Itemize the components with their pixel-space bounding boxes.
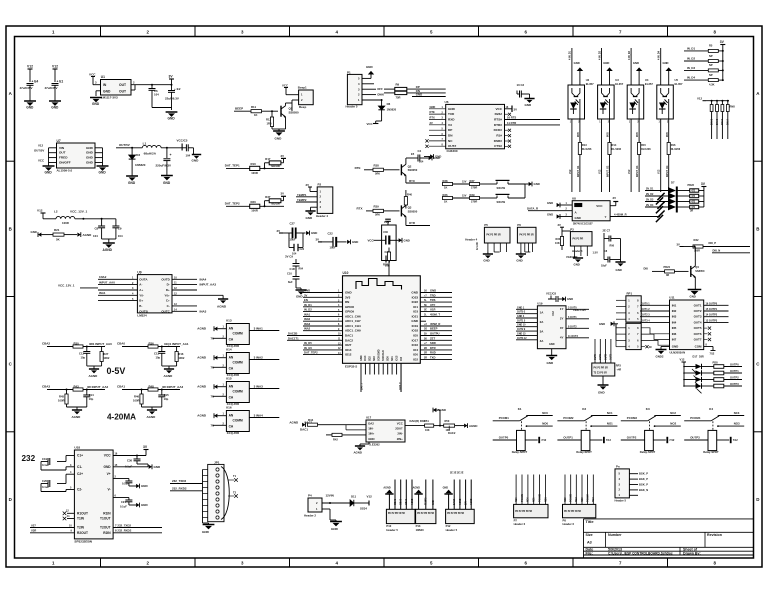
wire <box>418 494 420 509</box>
svg-text:PK P2 PR 5R 5R: PK P2 PR 5R 5R <box>515 511 532 513</box>
svg-text:R232: R232 <box>495 112 503 116</box>
header P8 <box>563 504 596 517</box>
wire <box>516 313 537 315</box>
wire <box>172 294 223 296</box>
svg-text:GND: GND <box>304 289 310 293</box>
svg-text:6 OUT1: 6 OUT1 <box>568 316 577 319</box>
svg-text:ADC1_CH6: ADC1_CH6 <box>345 314 361 318</box>
svg-text:DAC(R) R49: DAC(R) R49 <box>410 419 426 423</box>
svg-text:2N_D3: 2N_D3 <box>646 199 654 201</box>
svg-text:IO15: IO15 <box>395 355 398 361</box>
svg-text:VCC/C5: VCC/C5 <box>177 139 188 143</box>
svg-text:GND: GND <box>45 171 53 175</box>
svg-text:GND: GND <box>306 216 313 220</box>
svg-text:31Q1 INPUT_AA1: 31Q1 INPUT_AA1 <box>164 342 189 346</box>
svg-text:FRED: FRED <box>59 156 68 160</box>
svg-text:8 232_RXD2: 8 232_RXD2 <box>115 529 132 533</box>
power GND <box>668 71 670 85</box>
power 3V <box>283 158 285 162</box>
ground AGND <box>147 409 157 411</box>
svg-text:Number: Number <box>608 533 622 537</box>
svg-text:BEEP: BEEP <box>430 327 438 331</box>
svg-text:5R6: 5R6 <box>375 171 380 175</box>
svg-text:CBA3: CBA3 <box>405 498 408 505</box>
svg-text:TBD10K: TBD10K <box>271 165 281 168</box>
svg-text:3R: 3R <box>666 274 669 277</box>
svg-text:GND 10: GND 10 <box>517 325 526 327</box>
svg-text:R2OUT: R2OUT <box>77 531 88 535</box>
net 455M_R <box>610 216 660 218</box>
svg-text:VCC_12V_1: VCC_12V_1 <box>58 283 75 287</box>
wire <box>610 339 612 363</box>
svg-text:GND: GND <box>141 503 148 507</box>
svg-text:SCK/CLK: SCK/CLK <box>382 350 385 361</box>
svg-text:COMM: COMM <box>233 390 244 394</box>
svg-text:3V: 3V <box>514 107 518 111</box>
svg-text:AN: AN <box>229 414 234 418</box>
svg-text:DA2: DA2 <box>368 421 374 425</box>
svg-text:OUT#: OUT# <box>448 144 457 148</box>
wire <box>566 308 589 310</box>
svg-text:100R: 100R <box>58 399 65 403</box>
svg-text:NO0: NO0 <box>528 497 530 502</box>
wire <box>533 475 535 505</box>
svg-text:3V C9: 3V C9 <box>285 255 293 259</box>
svg-text:IO23: IO23 <box>412 295 419 299</box>
svg-text:C15: C15 <box>164 393 169 397</box>
svg-text:DL/1206: DL/1206 <box>582 148 592 151</box>
capacitor E1 <box>53 68 58 70</box>
wire <box>601 48 603 85</box>
power AGND <box>464 424 467 428</box>
svg-text:3 INA2: 3 INA2 <box>254 356 264 360</box>
svg-text:GND: GND <box>99 171 107 175</box>
svg-text:C2+: C2+ <box>77 472 83 476</box>
svg-text:C23: C23 <box>300 248 305 251</box>
svg-text:IN_D1: IN_D1 <box>687 46 695 50</box>
svg-text:IN: IN <box>103 83 107 87</box>
svg-text:INPUT_D1: INPUT_D1 <box>578 165 580 177</box>
svg-text:2N_D4: 2N_D4 <box>646 204 654 207</box>
svg-text:OUTP0: OUTP0 <box>730 362 739 366</box>
svg-text:GND: GND <box>599 322 605 326</box>
wire <box>599 339 601 363</box>
svg-text:DAT_TEP1: DAT_TEP1 <box>225 163 240 167</box>
svg-text:PK P2 PR 5R 5R: PK P2 PR 5R 5R <box>388 513 405 515</box>
svg-text:CBA1: CBA1 <box>117 384 125 388</box>
svg-text:AGND: AGND <box>197 327 207 331</box>
svg-text:PD8: PD8 <box>713 361 719 365</box>
svg-text:R16: R16 <box>671 143 676 147</box>
svg-text:GND: GND <box>416 93 422 97</box>
resistor pack RP3 <box>592 363 615 376</box>
svg-text:3R: 3R <box>690 210 693 213</box>
wire <box>459 480 461 510</box>
svg-text:DTR#: DTR# <box>494 123 502 127</box>
svg-text:AGND: AGND <box>289 421 299 425</box>
ground <box>273 130 285 132</box>
wire <box>616 299 626 301</box>
wire <box>429 108 446 110</box>
power GND <box>638 71 640 85</box>
wire <box>420 315 452 317</box>
svg-text:INPUT_AA3: INPUT_AA3 <box>200 283 217 287</box>
wire <box>616 306 626 308</box>
power GND <box>529 182 532 186</box>
svg-text:VCC: VCC <box>596 204 603 208</box>
svg-text:U10: U10 <box>343 271 349 275</box>
svg-text:OUTPU: OUTPU <box>430 332 440 336</box>
svg-text:IO22: IO22 <box>412 300 419 304</box>
resistor R12 <box>271 111 273 117</box>
svg-text:1IN-: 1IN- <box>368 427 373 431</box>
wire <box>98 300 137 302</box>
svg-text:U6: U6 <box>445 100 449 104</box>
svg-text:VCC: VCC <box>397 421 403 425</box>
svg-text:2E C7: 2E C7 <box>603 228 611 232</box>
svg-text:R12: R12 <box>266 118 271 122</box>
wire <box>102 238 116 240</box>
svg-text:R32: R32 <box>694 238 699 242</box>
wire <box>303 354 343 356</box>
svg-text:11 OUT3: 11 OUT3 <box>568 335 579 338</box>
svg-text:C1+: C1+ <box>77 454 83 458</box>
svg-text:R5: R5 <box>709 44 713 48</box>
svg-text:AGND: AGND <box>147 415 157 419</box>
svg-text:Beep: Beep <box>299 105 306 109</box>
svg-text:BEEP: BEEP <box>235 107 243 111</box>
power 3V <box>169 78 174 80</box>
svg-text:IN05: IN05 <box>637 132 639 137</box>
svg-text:Relay-SPDT: Relay-SPDT <box>640 450 656 454</box>
svg-text:R46: R46 <box>134 395 139 399</box>
wire <box>420 292 452 294</box>
svg-text:IO2: IO2 <box>413 357 418 361</box>
svg-text:104: 104 <box>186 154 191 158</box>
svg-text:IN_D2: IN_D2 <box>687 56 695 60</box>
resistor network RN8 <box>711 100 713 102</box>
svg-text:AGND: AGND <box>217 305 227 309</box>
resistor R21 <box>38 233 41 237</box>
net INA2 <box>249 359 279 361</box>
svg-text:SW-PB: SW-PB <box>497 186 506 190</box>
wire <box>394 480 396 510</box>
wire <box>287 339 343 341</box>
svg-text:CA: CA <box>229 396 234 400</box>
power 3V <box>283 196 285 200</box>
capacitor E2 <box>168 90 175 92</box>
wire <box>539 475 541 505</box>
svg-text:Relay-SPDT: Relay-SPDT <box>512 450 528 454</box>
svg-text:Size: Size <box>586 533 593 537</box>
svg-text:+: + <box>170 153 172 157</box>
wire <box>566 337 589 339</box>
svg-text:15 OUTP1: 15 OUTP1 <box>706 308 718 311</box>
svg-text:EL357: EL357 <box>675 82 683 86</box>
wire <box>575 475 577 505</box>
svg-text:GND: GND <box>352 240 358 244</box>
svg-text:C21: C21 <box>121 500 126 504</box>
svg-text:GND: GND <box>103 465 111 469</box>
svg-text:R45: R45 <box>59 395 64 399</box>
svg-text:GND: GND <box>662 61 668 65</box>
svg-text:VCC: VCC <box>282 84 288 88</box>
svg-text:U16: U16 <box>226 406 232 410</box>
svg-text:PCOM4: PCOM4 <box>586 493 589 502</box>
svg-text:V12: V12 <box>37 209 43 213</box>
svg-text:R15: R15 <box>641 143 646 147</box>
svg-text:CBA3: CBA3 <box>42 384 50 388</box>
svg-text:104: 104 <box>419 160 424 164</box>
svg-text:V12: V12 <box>52 65 58 69</box>
svg-text:IO16: IO16 <box>412 343 419 347</box>
svg-text:1K: 1K <box>444 200 447 204</box>
svg-text:GND: GND <box>433 500 435 505</box>
svg-text:SS8050: SS8050 <box>695 269 705 273</box>
wire <box>420 339 452 341</box>
wire <box>630 119 632 192</box>
svg-text:A-: A- <box>139 283 142 287</box>
svg-text:IN3: IN3 <box>672 315 677 319</box>
wire <box>303 292 343 294</box>
svg-text:OUT2 3: OUT2 3 <box>641 314 650 317</box>
svg-text:DL/1206: DL/1206 <box>641 148 651 151</box>
svg-text:DNA1: DNA1 <box>710 118 713 125</box>
svg-text:RXD: RXD <box>448 118 455 122</box>
wire <box>494 251 500 253</box>
svg-text:R50: R50 <box>445 419 450 423</box>
svg-text:7/12: 7/12 <box>733 438 739 442</box>
svg-text:P5: P5 <box>484 223 488 227</box>
wire <box>629 484 638 486</box>
svg-text:IO21: IO21 <box>412 314 419 318</box>
wire <box>570 475 572 505</box>
svg-text:NO0: NO0 <box>542 422 548 426</box>
svg-text:104: 104 <box>154 93 159 97</box>
svg-text:232_TXD2: 232_TXD2 <box>172 479 187 483</box>
svg-text:SD1: SD1 <box>391 356 394 361</box>
wire <box>566 327 589 329</box>
svg-text:A3: A3 <box>587 541 592 545</box>
svg-text:104: 104 <box>118 234 123 238</box>
wire <box>303 344 343 346</box>
no-connect <box>704 339 708 341</box>
svg-text:Header 5: Header 5 <box>346 105 358 109</box>
ground AGND <box>89 368 99 370</box>
wire <box>629 478 638 480</box>
svg-text:Pn: Pn <box>616 465 620 469</box>
svg-text:R40: R40 <box>407 192 412 196</box>
svg-text:3R1 INPUT_AA0: 3R1 INPUT_AA0 <box>89 342 112 346</box>
svg-text:C+: C+ <box>166 299 170 303</box>
svg-text:SD0: SD0 <box>387 356 390 361</box>
svg-text:NC1: NC1 <box>607 411 613 415</box>
ground AGND <box>72 409 82 411</box>
svg-text:7/12: 7/12 <box>541 438 547 442</box>
svg-text:GND: GND <box>31 230 37 234</box>
svg-text:EL357: EL357 <box>645 82 653 86</box>
svg-text:GND: GND <box>92 102 100 106</box>
svg-text:TBD10K: TBD10K <box>271 203 281 206</box>
svg-text:PK P2 PR 5R: PK P2 PR 5R <box>519 235 534 237</box>
ground <box>574 256 576 258</box>
svg-text:100R: 100R <box>251 171 258 175</box>
svg-text:232: 232 <box>22 454 36 463</box>
no-connect <box>641 346 645 348</box>
svg-text:GND: GND <box>51 106 59 110</box>
svg-text:3V: 3V <box>281 192 285 196</box>
wire <box>387 363 389 374</box>
resistor R38 <box>388 248 390 253</box>
svg-text:U3R: U3R <box>31 529 36 533</box>
svg-text:OUTD: OUTD <box>161 277 170 281</box>
svg-text:DAC1: DAC1 <box>300 428 308 432</box>
svg-text:ADC1_CH9: ADC1_CH9 <box>345 329 361 333</box>
svg-text:TRS: TRS <box>430 298 436 302</box>
svg-text:DI8_P: DI8_P <box>709 241 717 245</box>
svg-text:VCC: VCC <box>551 311 554 316</box>
ground <box>126 175 138 177</box>
power GND <box>609 71 611 85</box>
svg-text:10K: 10K <box>425 429 430 432</box>
svg-text:8 OUT2: 8 OUT2 <box>568 325 577 328</box>
svg-text:CBA2: CBA2 <box>42 341 50 345</box>
svg-text:SS34: SS34 <box>360 507 367 511</box>
svg-text:U14: U14 <box>226 348 232 352</box>
capacitor C23 <box>288 233 290 248</box>
wire COM <box>704 346 713 348</box>
svg-text:2N_D1: 2N_D1 <box>646 188 654 190</box>
wire <box>292 99 299 101</box>
svg-text:+4R: +4R <box>617 369 622 372</box>
svg-text:INPUT_D4: INPUT_D4 <box>666 165 669 177</box>
ground <box>330 521 342 523</box>
wire <box>641 328 669 334</box>
svg-text:NO1: NO1 <box>545 497 547 502</box>
svg-text:IN5: IN5 <box>672 326 677 330</box>
wire <box>420 306 452 308</box>
svg-text:3 INA4: 3 INA4 <box>254 414 264 418</box>
svg-text:COMM: COMM <box>233 361 244 365</box>
svg-text:NC2: NC2 <box>565 497 567 502</box>
svg-text:DTE: DTE <box>430 110 435 114</box>
svg-text:BGK_P: BGK_P <box>639 477 648 481</box>
svg-text:7/12: 7/12 <box>710 353 715 356</box>
wire <box>162 365 177 367</box>
svg-text:3V: 3V <box>304 293 308 297</box>
svg-text:INPUT_D3: INPUT_D3 <box>637 165 639 177</box>
svg-text:18uF: 18uF <box>601 265 607 268</box>
svg-text:2R: 2R <box>424 357 427 359</box>
svg-text:1IN+: 1IN+ <box>368 432 374 436</box>
svg-text:22uF/6.3V: 22uF/6.3V <box>165 97 179 101</box>
ground <box>24 100 36 102</box>
svg-text:10p: 10p <box>164 397 169 401</box>
svg-text:10p: 10p <box>81 356 86 360</box>
wire <box>629 494 638 496</box>
svg-text:V12: V12 <box>599 169 602 174</box>
resistor R14 <box>609 119 611 143</box>
svg-text:3 INA1: 3 INA1 <box>254 327 264 331</box>
svg-text:U1: U1 <box>101 75 105 79</box>
svg-text:10K: 10K <box>555 241 560 245</box>
power GND <box>579 71 581 85</box>
svg-text:File:: File: <box>586 552 593 556</box>
svg-text:IN_D2: IN_D2 <box>304 308 312 312</box>
svg-text:INA1: INA1 <box>304 312 311 316</box>
svg-text:7/12: 7/12 <box>669 438 675 442</box>
wire <box>704 304 729 306</box>
wire <box>420 335 452 337</box>
svg-text:GND: GND <box>525 103 532 107</box>
svg-text:IN05: IN05 <box>667 132 669 137</box>
svg-text:IN6: IN6 <box>672 332 677 336</box>
transistor Q3 <box>400 205 402 216</box>
wire <box>405 480 407 510</box>
svg-text:2K: 2K <box>424 338 427 340</box>
ground <box>524 98 534 100</box>
title block <box>584 518 754 520</box>
svg-text:EN: EN <box>304 298 308 302</box>
wire <box>388 494 390 509</box>
wire <box>566 318 589 320</box>
svg-text:IO4: IO4 <box>413 348 418 352</box>
svg-text:11 DTR: 11 DTR <box>507 121 516 125</box>
svg-text:AGND: AGND <box>197 414 207 418</box>
resistor R42 <box>326 434 332 436</box>
svg-text:3Y: 3Y <box>560 326 564 330</box>
svg-text:Q2: Q2 <box>408 164 412 168</box>
svg-text:RTX: RTX <box>357 207 363 211</box>
svg-text:C27: C27 <box>290 222 296 226</box>
wire <box>592 475 594 505</box>
wire <box>605 339 607 363</box>
svg-text:RTX: RTX <box>409 179 415 183</box>
wire <box>362 99 382 101</box>
svg-text:GND: GND <box>547 213 553 217</box>
svg-text:NC3: NC3 <box>582 497 584 502</box>
wire <box>429 145 446 147</box>
net 232_RXD2 <box>113 532 162 534</box>
diode D6 <box>381 100 383 106</box>
wire <box>594 339 596 363</box>
wire <box>429 119 446 121</box>
svg-text:Header 4: Header 4 <box>465 238 477 242</box>
svg-text:U7: U7 <box>57 139 61 143</box>
svg-text:OUT3 4: OUT3 4 <box>641 319 650 322</box>
wire <box>420 296 452 298</box>
ground <box>97 165 109 167</box>
svg-text:R9: R9 <box>396 82 400 86</box>
wire <box>516 330 537 332</box>
svg-text:DAT_TEP2: DAT_TEP2 <box>225 201 240 205</box>
svg-text:SS8050: SS8050 <box>289 110 300 114</box>
svg-text:Y: Y <box>605 215 607 219</box>
svg-text:TEMP1: TEMP1 <box>297 193 307 197</box>
svg-text:NO3: NO3 <box>734 422 740 426</box>
ground <box>483 253 493 255</box>
svg-text:T1IN: T1IN <box>77 517 85 521</box>
wire <box>432 480 434 510</box>
ground <box>192 154 201 156</box>
wire <box>629 473 638 475</box>
svg-text:INA1: INA1 <box>99 291 106 295</box>
svg-text:P2: P2 <box>318 183 322 187</box>
svg-text:GND: GND <box>516 259 522 263</box>
svg-text:U27: U27 <box>31 523 36 527</box>
no-connect <box>505 113 509 115</box>
svg-text:V12: V12 <box>658 169 661 174</box>
